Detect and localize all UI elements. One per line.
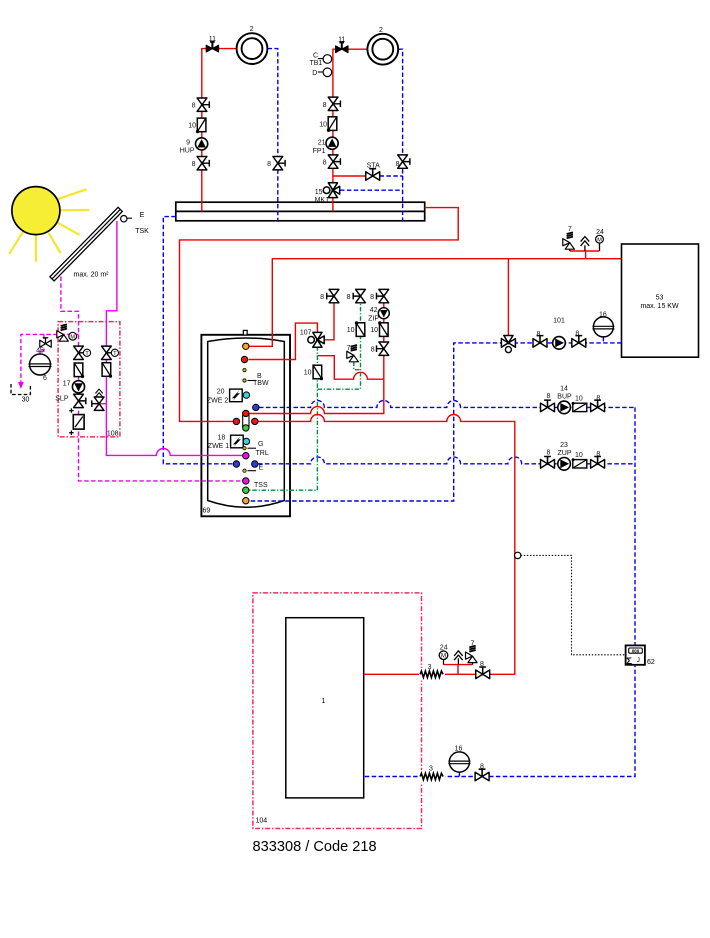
tank sensor tick G TRL [248, 447, 257, 449]
svg-text:69: 69 [203, 508, 211, 515]
svg-text:STA: STA [367, 162, 380, 169]
svg-text:16: 16 [455, 745, 463, 752]
check valve 10 below 107 [313, 365, 323, 380]
safety valve 7 HP [466, 646, 478, 663]
sun [9, 187, 89, 262]
svg-text:TSS: TSS [254, 482, 268, 489]
wire: HP safety group stubs [444, 658, 473, 664]
svg-text:18: 18 [218, 434, 226, 441]
heat pump outline box 104 [253, 593, 422, 829]
manifold (distributor) [176, 202, 425, 221]
drain vessel 30 [11, 384, 30, 395]
svg-text:8: 8 [370, 294, 374, 301]
svg-text:8: 8 [347, 294, 351, 301]
port ZWE1 cyan [243, 438, 249, 444]
svg-text:8: 8 [267, 161, 271, 168]
wire: circuit2 supply red [333, 49, 368, 211]
tank sensor tick E [248, 470, 257, 472]
valve 45 [40, 338, 51, 348]
gauge 24 boiler [596, 235, 604, 243]
sensor dot upper [243, 368, 246, 371]
pump 17 SLP [72, 381, 84, 393]
wire: HP safety group red [444, 665, 473, 675]
heating circuit 2 (right circle) [367, 34, 398, 65]
svg-text:3: 3 [429, 766, 433, 773]
safety valve 7 boiler [563, 232, 575, 249]
port pill top red [243, 410, 249, 416]
svg-text:833308 / Code 218: 833308 / Code 218 [253, 839, 377, 855]
buffer tank 69 outer shell [201, 335, 290, 517]
solar ball valve with thermometer (flow) [102, 346, 112, 359]
wire: manifold supply to tank mid port red [180, 208, 459, 422]
valve 8 circuit1 supply upper [197, 98, 209, 111]
svg-text:G: G [258, 441, 263, 448]
svg-text:Σ: Σ [626, 656, 632, 667]
wire: tank hot to mixing valve 107 red [249, 323, 318, 359]
svg-text:ZIP: ZIP [368, 315, 379, 322]
wire: boiler safety group red [570, 251, 600, 259]
wire: STA branch red [333, 175, 366, 177]
wire: circuit1 supply red [202, 49, 237, 212]
svg-text:ZUP: ZUP [558, 450, 572, 457]
wire: ZIP circulation vertical red [249, 302, 384, 413]
svg-text:TSK: TSK [135, 228, 149, 235]
svg-text:SLP: SLP [55, 395, 69, 402]
wire: solar safety branch magenta dashed [21, 334, 79, 383]
solar safety valve [57, 324, 69, 341]
heating circuit 2 (left circle) [237, 33, 268, 64]
boiler 53 [622, 244, 699, 357]
svg-text:21: 21 [318, 139, 326, 146]
heat pump unit 1 [286, 618, 364, 798]
expansion vessel 16 boiler [592, 317, 614, 337]
port TRL magenta [243, 453, 249, 459]
svg-text:8: 8 [537, 331, 541, 338]
svg-text:000: 000 [632, 648, 640, 653]
wire: BUP line blue [259, 400, 635, 407]
solar air vent valve [92, 397, 104, 410]
port supply right red [252, 418, 258, 424]
tank sensor tick B TBW [248, 380, 257, 382]
svg-text:8: 8 [320, 294, 324, 301]
svg-text:8: 8 [596, 395, 600, 402]
svg-text:TB1: TB1 [309, 60, 322, 67]
wire: tank top to boiler red [249, 259, 622, 347]
expansion vessel 6 [29, 354, 52, 375]
flow setter solar [69, 408, 84, 435]
wire: circuit2 return blue [398, 49, 402, 221]
check valve solar return [74, 363, 84, 378]
svg-text:104: 104 [256, 817, 268, 824]
tank top nub [243, 330, 247, 335]
sensor D [318, 68, 332, 77]
port hot red [241, 356, 247, 362]
sensor pocket circle on HP supply [515, 552, 521, 558]
valve 8 DHW left [327, 289, 339, 302]
svg-text:10: 10 [347, 327, 355, 334]
air vent HP [454, 651, 463, 660]
svg-text:7: 7 [568, 226, 572, 233]
wire: expansion vessel 16 stub [602, 337, 604, 343]
svg-text:16: 16 [599, 311, 607, 318]
port return left blue [233, 461, 239, 467]
svg-text:MK1: MK1 [315, 197, 330, 204]
wire: expansion vessel 6 stub magenta [40, 334, 44, 354]
pump 101 [553, 337, 566, 350]
svg-text:30: 30 [22, 397, 30, 404]
svg-text:107: 107 [300, 329, 312, 336]
valve 8 DHW middle [353, 289, 365, 302]
valve 11 circuit2 [336, 42, 348, 52]
svg-text:8: 8 [547, 450, 551, 457]
svg-text:3: 3 [428, 664, 432, 671]
wire: manifold return blue left [163, 217, 236, 464]
svg-text:8: 8 [575, 331, 579, 338]
svg-text:HUP: HUP [180, 147, 195, 154]
svg-text:TRL: TRL [256, 450, 269, 457]
wire: 107 to shutoff valve red [325, 302, 334, 340]
port supply left red [233, 418, 239, 424]
svg-text:8: 8 [480, 661, 484, 668]
svg-text:B: B [257, 373, 262, 380]
check valve 10 ZUP [572, 458, 587, 468]
valve 8 ZUP right [591, 457, 605, 469]
check valve 10 BUP [572, 402, 587, 412]
wire: solar return magenta dashed [61, 277, 243, 481]
svg-text:FP1: FP1 [313, 148, 326, 155]
svg-text:8: 8 [480, 763, 484, 770]
svg-text:8: 8 [192, 103, 196, 110]
collector sensor TSK [121, 216, 132, 222]
svg-text:C: C [313, 52, 318, 59]
svg-text:53: 53 [656, 295, 664, 302]
svg-text:11: 11 [338, 36, 345, 43]
svg-text:BUP: BUP [557, 393, 572, 400]
flex hose 3 HP supply [419, 668, 445, 681]
svg-text:E: E [259, 465, 264, 472]
valve 8 boiler return left [533, 336, 547, 348]
valve 8 HP supply [476, 667, 490, 679]
valve 8 circuit2 return [398, 155, 410, 168]
3-way valve boiler return [501, 335, 515, 352]
wire: vessel 16 stub blue [458, 772, 460, 777]
svg-text:10: 10 [575, 452, 583, 459]
svg-text:24: 24 [596, 229, 604, 236]
svg-text:23: 23 [560, 442, 568, 449]
valve 8 BUP left [541, 400, 555, 412]
svg-text:1: 1 [322, 698, 326, 705]
wire: HP supply red [255, 414, 515, 674]
svg-text:max. 15 KW: max. 15 KW [640, 303, 679, 310]
drain arrow magenta [18, 382, 24, 389]
svg-text:9: 9 [186, 139, 190, 146]
svg-text:ZWE 2: ZWE 2 [207, 397, 228, 404]
wire: circuit1 return blue [268, 49, 278, 221]
expansion vessel 16 HP [448, 752, 470, 772]
svg-text:11: 11 [209, 36, 216, 43]
valve 8 circuit2 supply lower [328, 155, 340, 168]
gauge 24 HP [439, 651, 448, 660]
solar ball valve with thermometer (return) [74, 346, 84, 359]
check valve 10 cold water [355, 321, 365, 336]
tank connection pill [243, 412, 249, 430]
solar station box 108 [58, 322, 120, 437]
svg-text:10: 10 [370, 327, 378, 334]
wire: STA branch blue [380, 175, 403, 177]
valve 8 BUP right [591, 400, 605, 412]
valve 8 DHW right [377, 289, 389, 302]
sensor dot B [243, 379, 246, 382]
heater ZWE1 [231, 435, 244, 448]
valve 8 HP return [475, 769, 489, 781]
solar air vent [95, 389, 102, 397]
valve 8 boiler return right [572, 336, 586, 348]
sensor dot G [243, 447, 246, 450]
svg-text:ZWE 1: ZWE 1 [208, 443, 229, 450]
wire: sensor line to controller 62 black dotted [521, 555, 626, 654]
pump 21 FP1 [326, 137, 338, 149]
svg-text:2: 2 [250, 26, 254, 33]
port ZUP right blue [252, 461, 258, 467]
svg-text:6: 6 [43, 375, 47, 382]
svg-text:15: 15 [315, 189, 323, 196]
svg-text:7: 7 [347, 345, 351, 352]
check valve 10 circuit2 [327, 117, 337, 132]
svg-text:62: 62 [647, 659, 655, 666]
svg-text:17: 17 [63, 380, 71, 387]
air vent boiler [581, 237, 590, 246]
thermometer T (flow) [111, 349, 118, 357]
port TSS magenta [243, 478, 249, 484]
wire: ZUP line blue [258, 457, 635, 464]
mixing valve 19 MK1 [323, 183, 340, 198]
svg-text:E: E [140, 212, 145, 219]
valve solar below pump [74, 394, 86, 407]
wire: ZIP to cold water junction red [317, 356, 383, 380]
svg-text:45: 45 [36, 348, 44, 355]
svg-text:10: 10 [188, 123, 196, 130]
pump 42 ZIP [378, 308, 389, 319]
wire: safety valve 7 stub green [354, 362, 361, 370]
wire: cold water line green [249, 346, 317, 490]
port pill bottom green [243, 425, 249, 431]
safety valve 7 cold water [347, 345, 359, 362]
valve STA [366, 169, 380, 181]
wire: cold water branch green [317, 302, 360, 389]
svg-text:8: 8 [192, 161, 196, 168]
wire: HP return blue [364, 407, 635, 776]
controller box 62 [626, 645, 645, 666]
thermostatic mixing valve 107 [308, 332, 325, 347]
wire: boiler return blue [249, 343, 622, 501]
valve 8 circuit2 supply upper [328, 97, 340, 110]
check valve solar flow [102, 363, 112, 378]
svg-text:108: 108 [107, 431, 119, 438]
svg-text:14: 14 [560, 386, 568, 393]
port ZWE2 cyan [243, 392, 249, 398]
svg-text:24: 24 [440, 644, 448, 651]
svg-text:max. 20 m²: max. 20 m² [73, 271, 109, 278]
port top orange [243, 343, 249, 349]
check valve 10 ZIP [378, 321, 388, 336]
svg-text:2: 2 [379, 27, 383, 34]
pump 23 ZUP [558, 458, 571, 471]
port BUP blue [253, 404, 259, 410]
sensor C TB1 [318, 55, 332, 64]
valve 8 circuit1 supply lower [197, 157, 209, 170]
flex hose 3 HP return [419, 770, 445, 783]
svg-text:10: 10 [319, 121, 327, 128]
sensor dot E [243, 469, 246, 472]
svg-text:42: 42 [370, 307, 378, 314]
wire: solar air vent stub magenta [99, 403, 106, 405]
svg-text:TBW: TBW [253, 380, 269, 387]
port cold green [243, 487, 249, 493]
svg-text:8: 8 [371, 346, 375, 353]
check valve 10 circuit1 [196, 118, 206, 133]
svg-text:10: 10 [304, 370, 312, 377]
svg-text:8: 8 [396, 161, 400, 168]
svg-text:10: 10 [575, 396, 583, 403]
buffer tank inner vessel [208, 338, 285, 507]
valve 11 circuit1 [206, 42, 218, 52]
svg-text:7: 7 [471, 641, 475, 648]
svg-text:20: 20 [217, 388, 225, 395]
valve 8 ZIP [377, 342, 389, 355]
valve 8 circuit1 return [273, 157, 285, 170]
port bottom orange [243, 498, 249, 504]
thermometer T (return) [83, 349, 90, 357]
svg-text:J: J [637, 657, 640, 664]
wire: boiler safety group stubs [570, 243, 600, 251]
svg-text:D: D [312, 70, 317, 77]
wire: MK1 bypass blue [340, 189, 403, 191]
svg-text:8: 8 [323, 159, 327, 166]
pump 14 BUP [558, 401, 571, 414]
svg-text:8: 8 [323, 102, 327, 109]
pump 9 HUP [196, 138, 208, 150]
valve 8 ZUP left [541, 457, 555, 469]
svg-text:101: 101 [553, 318, 565, 325]
wire: tee down to 3-way valve red [507, 259, 509, 336]
svg-text:8: 8 [547, 393, 551, 400]
svg-text:8: 8 [596, 451, 600, 458]
solar collector panel [50, 207, 122, 281]
wire: solar flow magenta [106, 221, 242, 455]
solar gauge M [69, 332, 77, 340]
heater ZWE2 [230, 389, 243, 402]
